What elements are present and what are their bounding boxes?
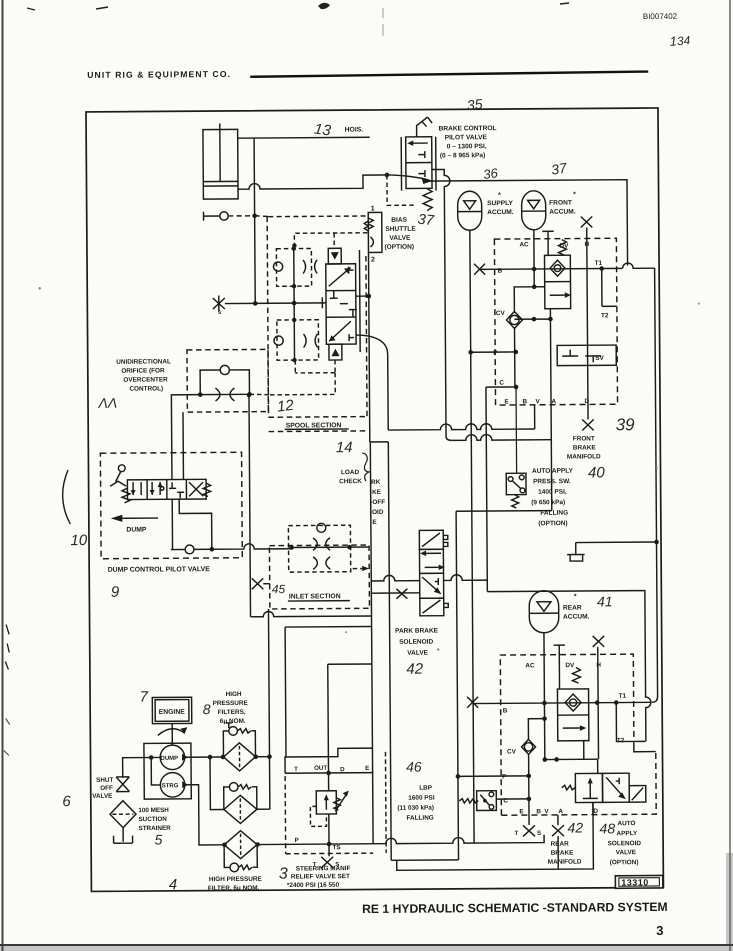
svg-text:4: 4: [169, 876, 177, 893]
svg-text:T1: T1: [595, 260, 603, 267]
suction line: [123, 757, 161, 777]
svg-text:BRAKE: BRAKE: [551, 850, 575, 857]
front accumulator: [522, 191, 546, 230]
svg-text:9: 9: [111, 584, 120, 601]
svg-text:CV: CV: [496, 310, 506, 317]
svg-text:T2: T2: [617, 737, 625, 744]
node dot P steering: [327, 842, 332, 847]
svg-text:SUPPLY: SUPPLY: [487, 200, 513, 207]
load check unit: [288, 523, 350, 572]
DUMP pump: [160, 745, 188, 770]
front brake manifold dashed box: [494, 238, 617, 405]
engine shaft: [171, 724, 173, 746]
branch to middle filter: [210, 757, 224, 810]
wire through load check: [292, 546, 369, 549]
wire orifice main line: [200, 393, 249, 395]
dump control pilot valve dashed box: [100, 452, 242, 558]
U link A to D: [558, 802, 594, 869]
svg-text:2: 2: [371, 256, 375, 263]
load check symbol: [362, 453, 369, 481]
svg-text:SHUTTLE: SHUTTLE: [385, 226, 416, 233]
node dot T1: [599, 266, 604, 271]
supply accumulator: [458, 191, 482, 230]
dump control valve body: [127, 479, 206, 499]
DUMP arrow: [121, 517, 158, 519]
svg-text:D: D: [585, 398, 590, 405]
svg-text:CHECK: CHECK: [339, 478, 362, 485]
manual lever on pilot valve: [417, 117, 433, 137]
node dot pilot rail: [292, 243, 296, 247]
brake control pilot valve label: [439, 125, 497, 159]
svg-text:T1: T1: [619, 693, 627, 700]
13310 tag box outer: [615, 875, 663, 888]
svg-text:C: C: [499, 380, 504, 387]
svg-text:8: 8: [203, 701, 211, 717]
rear DV check block: [557, 689, 588, 741]
auto apply pressure switch: [506, 473, 526, 508]
strainer label: [138, 807, 171, 832]
strainer tank: [113, 828, 132, 844]
bias shuttle valve label: [384, 217, 416, 251]
svg-text:3: 3: [656, 923, 663, 938]
svg-text:(OPTION): (OPTION): [610, 859, 639, 866]
svg-text:IOID: IOID: [370, 509, 384, 516]
pump dump output line: [185, 756, 224, 758]
handwritten margin curve: [62, 470, 70, 524]
hoist cylinder C1: [203, 123, 238, 199]
svg-text:INLET SECTION: INLET SECTION: [289, 593, 341, 600]
svg-text:134: 134: [669, 32, 691, 49]
spool top solenoid cap: [328, 248, 341, 264]
svg-text:OFF: OFF: [100, 785, 113, 792]
svg-text:DUMP: DUMP: [160, 756, 178, 762]
supply accum label: [487, 192, 514, 216]
svg-text:BRAKE CONTROL: BRAKE CONTROL: [439, 125, 497, 132]
auto apply valve spring: [562, 785, 576, 790]
svg-text:SHUT: SHUT: [96, 777, 113, 784]
wire down from jog: [456, 511, 458, 860]
dashed stub inlet to trunk: [353, 567, 367, 569]
wire P line into manifold: [471, 351, 516, 353]
T1 to T2 vertical: [601, 269, 603, 307]
svg-text:BRAKE: BRAKE: [573, 444, 597, 451]
tank branch line: [576, 541, 657, 544]
svg-text:UNIDIRECTIONAL: UNIDIRECTIONAL: [116, 358, 171, 365]
svg-text:S: S: [537, 830, 541, 837]
steering manifold label: [287, 865, 351, 889]
rear DV solenoid: [554, 645, 581, 689]
svg-text:VALVE: VALVE: [616, 849, 637, 856]
dump valve output drops: [171, 499, 173, 549]
H-D line vertical front: [587, 227, 588, 419]
branch y616 to trunk: [250, 611, 371, 617]
svg-text:DUMP: DUMP: [126, 527, 147, 534]
svg-text:-OFF: -OFF: [370, 499, 385, 506]
svg-text:D: D: [340, 766, 345, 773]
relief to P line: [328, 814, 330, 844]
top margin speck 2: [318, 3, 330, 9]
rear port labels: [501, 662, 627, 816]
svg-text:OVERCENTER: OVERCENTER: [123, 376, 168, 383]
auto apply press sw label: [531, 468, 574, 528]
wire filter to return trunk: [256, 756, 270, 758]
rear D line down: [592, 802, 594, 814]
wire dashed spool bottom to drain: [295, 360, 335, 373]
unidirectional orifice label: [116, 358, 171, 392]
svg-text:AUTO APPLY: AUTO APPLY: [532, 468, 574, 475]
fold mark dashes near top center: [382, 8, 384, 36]
node dot C line: [514, 385, 519, 390]
node dot P junction: [456, 774, 461, 779]
node dot accum branch: [532, 285, 537, 290]
rear accum label: [563, 593, 590, 620]
svg-text:CV: CV: [507, 748, 517, 755]
park brake solenoid valve: [419, 530, 448, 616]
rear accum line down: [543, 632, 546, 759]
wire spool right lower curve to trunk: [356, 335, 388, 430]
svg-text:42: 42: [406, 661, 423, 678]
wire spool right to bias line: [356, 295, 369, 297]
svg-text:39: 39: [616, 415, 636, 434]
node dots rear B line: [595, 700, 600, 705]
spool section label: [286, 422, 342, 429]
svg-text:RELIEF VALVE SET: RELIEF VALVE SET: [291, 873, 350, 880]
branch y626.5 steering T: [285, 626, 372, 757]
node dots lower unit: [292, 318, 296, 322]
V line stub: [557, 815, 559, 825]
park brake valve label: [395, 627, 439, 656]
svg-text:5: 5: [155, 831, 163, 847]
right gray edge strip (bottom corner): [726, 853, 733, 951]
svg-text:B: B: [536, 808, 541, 815]
svg-text:VALVE: VALVE: [407, 650, 428, 657]
svg-text:0 – 1300 PSI,: 0 – 1300 PSI,: [447, 143, 487, 150]
svg-text:DUMP CONTROL PILOT VALVE: DUMP CONTROL PILOT VALVE: [108, 566, 211, 574]
node dot output: [210, 547, 215, 552]
node dot accum at B line: [532, 267, 537, 272]
DV solenoid symbol front: [542, 231, 566, 255]
front accum label: [549, 192, 576, 216]
shut off valve label: [92, 777, 113, 800]
unidirectional orifice unit: [187, 349, 268, 412]
node dots work line: [253, 301, 258, 306]
rear CV line: [521, 719, 545, 799]
svg-text:*2400 PSI (16 550: *2400 PSI (16 550: [287, 882, 340, 889]
svg-text:B: B: [523, 398, 528, 405]
svg-text:42: 42: [567, 819, 583, 835]
svg-text:APPLY: APPLY: [617, 830, 639, 837]
node dots filter right: [253, 754, 258, 759]
svg-text:LOAD: LOAD: [341, 469, 360, 476]
top margin speck 1: [96, 7, 108, 9]
svg-text:SV: SV: [595, 355, 604, 362]
svg-text:*: *: [498, 192, 501, 199]
svg-text:MANIFOLD: MANIFOLD: [548, 859, 582, 866]
svg-text:SUCTION: SUCTION: [138, 816, 167, 823]
auto apply solenoid valve label: [607, 820, 641, 866]
node dots orifice line: [198, 392, 203, 397]
wire LBP to C: [496, 798, 529, 800]
right page edge line: [729, 0, 731, 951]
node dots dump output: [208, 755, 213, 760]
lower check-orifice unit: [274, 320, 319, 361]
top margin speck 3: [560, 3, 569, 4]
svg-text:AUTO: AUTO: [617, 820, 635, 827]
svg-text:VALVE: VALVE: [92, 793, 112, 800]
DV check valve block front: [545, 255, 571, 309]
wire pilot line to right with hump: [423, 180, 628, 267]
wire dashed down to spool cap: [333, 233, 335, 248]
node dot bias line: [366, 294, 371, 299]
coupling arc: [158, 729, 185, 736]
left page edge line: [2, 0, 4, 951]
svg-text:ACCUM.: ACCUM.: [487, 209, 514, 216]
brake control pilot valve V35 body: [401, 137, 436, 191]
wire dashed to valve bank: [255, 215, 269, 218]
spool tank drop line: [249, 395, 251, 617]
svg-text:TS: TS: [333, 844, 341, 851]
B port exit to line1: [534, 405, 536, 429]
wire C to left exit: [486, 386, 516, 388]
wire H to valve top: [597, 759, 599, 773]
dashed vertical beside trunk: [384, 752, 387, 853]
park valve feed line: [371, 575, 419, 581]
check valve on dump output: [185, 545, 194, 554]
middle filter output: [257, 808, 270, 810]
rear P line: [458, 775, 529, 777]
svg-text:14: 14: [336, 439, 353, 456]
rear B line: [473, 702, 652, 703]
svg-text:(11 030 kPa): (11 030 kPa): [397, 805, 434, 812]
svg-text:LBP: LBP: [419, 785, 433, 792]
wire hoist top line: [238, 136, 370, 139]
svg-text:A: A: [552, 398, 557, 405]
SV solenoid block front: [557, 345, 616, 366]
rear auto apply solenoid valve: [575, 773, 646, 802]
node dots upper unit: [292, 246, 296, 250]
svg-text:7: 7: [140, 689, 149, 706]
header underline: [250, 72, 648, 77]
rear H line: [597, 647, 600, 759]
steering port labels: [294, 764, 370, 851]
LBP label: [397, 785, 435, 822]
wire dashed top of valve bank box: [268, 215, 368, 218]
svg-text:PRESSURE: PRESSURE: [213, 700, 249, 707]
rear manifold dashed box: [500, 654, 656, 815]
bottom link line y857: [391, 859, 558, 870]
X front brake below D: [582, 419, 594, 430]
svg-text:P: P: [295, 837, 299, 844]
suction branch to STRG: [151, 757, 160, 785]
X above H front: [581, 216, 593, 227]
svg-text:OUT: OUT: [314, 765, 327, 772]
steering feed line right: [258, 843, 329, 845]
svg-text:1: 1: [371, 205, 375, 212]
svg-text:6: 6: [62, 793, 71, 810]
svg-text:MANIFOLD: MANIFOLD: [567, 453, 601, 460]
rear brake manifold label: [548, 841, 582, 866]
scan speckles: [39, 287, 41, 289]
svg-text:FALLING: FALLING: [406, 815, 433, 822]
svg-text:ENGINE: ENGINE: [159, 709, 186, 716]
trunk line right x388.5: [388, 442, 391, 860]
svg-text:VALVE: VALVE: [389, 235, 411, 242]
wire hoist rod line with hump: [238, 175, 387, 189]
X below rear V: [552, 825, 564, 836]
hump on B line at pilot vertical: [623, 263, 655, 269]
svg-text:PARK BRAKE: PARK BRAKE: [395, 627, 439, 634]
branch y664 steering OUT: [328, 664, 373, 773]
svg-text:DV: DV: [565, 662, 575, 669]
svg-text:H: H: [596, 662, 601, 669]
rear accumulator: [529, 591, 559, 633]
dump valve lever: [110, 465, 126, 487]
svg-text:36: 36: [482, 165, 499, 182]
svg-text:BI007402: BI007402: [643, 12, 678, 21]
top margin speck 4: [27, 8, 35, 10]
hoist spool valve body: [326, 250, 361, 352]
wire left drop to dump valve: [171, 395, 200, 480]
wire vertical from hoist top: [254, 138, 255, 303]
wire hoist work line: [225, 302, 326, 305]
suction strainer: [110, 801, 136, 828]
LBP pressure switch: [459, 791, 496, 811]
middle HP filter: [224, 782, 257, 823]
svg-text:12: 12: [276, 397, 295, 416]
svg-text:FRONT: FRONT: [549, 200, 572, 207]
T2 dashed stub: [602, 305, 617, 307]
return trunk x267.5: [268, 609, 269, 809]
svg-text:100 MESH: 100 MESH: [138, 807, 169, 814]
test point X with S: [213, 295, 225, 316]
svg-text:41: 41: [597, 593, 613, 609]
line2 park pilot line: [452, 434, 552, 440]
T S X rear: [514, 825, 541, 837]
svg-text:RE 1 HYDRAULIC SCHEMATIC -STAN: RE 1 HYDRAULIC SCHEMATIC -STANDARD SYSTE…: [362, 900, 668, 916]
svg-text:T2: T2: [601, 312, 609, 319]
node junction dot pilot: [385, 173, 390, 178]
front manifold port labels: [492, 241, 609, 406]
lower filter label: [208, 876, 263, 892]
node dot P-line at supply: [468, 350, 473, 355]
node dot on vertical: [252, 213, 257, 218]
node dot OUT: [326, 771, 331, 776]
svg-text:ACCUM.: ACCUM.: [563, 613, 590, 620]
wire jog line2 to park output: [456, 510, 552, 513]
svg-text:40: 40: [588, 464, 605, 481]
steering P line continues right: [329, 835, 544, 844]
steering relief valve: [310, 773, 349, 827]
steering manifold box: [285, 748, 373, 854]
svg-text:1400 PSI,: 1400 PSI,: [538, 489, 567, 496]
svg-text:35: 35: [466, 96, 483, 114]
wire dashed to spool drain: [249, 393, 268, 396]
node dots load check: [289, 545, 294, 550]
X above rear H: [593, 636, 605, 647]
X on park stub: [396, 589, 407, 599]
C exit down: [486, 387, 487, 591]
svg-text:ORIFICE (FOR: ORIFICE (FOR: [121, 367, 165, 374]
svg-text:(0 – 8 965 kPa): (0 – 8 965 kPa): [440, 152, 486, 159]
wire second drop to dump valve: [182, 412, 184, 479]
svg-text:*: *: [574, 594, 577, 601]
rear E line to TS: [528, 799, 530, 825]
wire dashed drain to orifice line: [268, 373, 335, 395]
bottom gray edge strip: [0, 945, 733, 951]
svg-text:AC: AC: [519, 241, 529, 248]
svg-text:37: 37: [417, 212, 436, 230]
dump valve springs: [122, 488, 130, 503]
svg-text:48: 48: [599, 820, 615, 836]
top HP filter: [223, 723, 255, 771]
svg-text:FRONT: FRONT: [573, 435, 595, 442]
svg-text:46: 46: [406, 759, 422, 775]
rear supply down: [487, 591, 651, 743]
upper check-orifice unit: [273, 248, 317, 286]
svg-text:BIAS: BIAS: [391, 217, 407, 224]
trunk line left x370: [370, 442, 373, 844]
svg-text:ΛΛ: ΛΛ: [97, 395, 117, 411]
svg-text:HIGH: HIGH: [226, 691, 242, 698]
svg-text:E: E: [365, 765, 369, 772]
svg-text:HIGH PRESSURE: HIGH PRESSURE: [209, 876, 263, 883]
svg-text:SOLENOID: SOLENOID: [608, 840, 642, 847]
svg-text:*: *: [573, 192, 576, 199]
svg-text:T: T: [515, 830, 519, 837]
wire vertical linking units: [293, 286, 295, 320]
spring pilot valve: [423, 189, 432, 211]
E port line to switch: [515, 387, 518, 473]
X closed port left of B: [474, 264, 485, 275]
svg-text:ACCUM.: ACCUM.: [549, 209, 576, 216]
svg-text:10: 10: [70, 532, 87, 549]
CV line with check front: [506, 287, 535, 387]
pump box: [144, 743, 191, 799]
wire dump output line: [171, 544, 292, 550]
wire accum branch to DV valve: [534, 286, 544, 288]
svg-text:FILTERS,: FILTERS,: [218, 709, 246, 716]
spool bottom solenoid cap: [329, 344, 342, 360]
front B line: [480, 267, 623, 270]
X rear B left: [467, 697, 478, 708]
spool section dashed outline: [267, 216, 367, 432]
wire dashed pilot rail y233: [294, 233, 367, 246]
node dot P at CV line: [513, 350, 518, 355]
park valve output right: [444, 575, 488, 581]
bottom page edge line: [0, 944, 733, 946]
node dots rear accum line: [542, 701, 547, 706]
svg-text:3: 3: [279, 866, 288, 883]
shut off valve: [116, 777, 129, 792]
partial hidden label park brake shutoff: [370, 479, 385, 526]
svg-text:KE: KE: [372, 489, 382, 496]
svg-text:T: T: [294, 766, 298, 773]
bias shuttle valve V1: [364, 212, 382, 252]
svg-text:A: A: [558, 808, 563, 815]
STRG pump: [160, 773, 188, 798]
node dots rear CV: [526, 774, 531, 779]
line1 brake apply to B port: [388, 423, 535, 430]
svg-text:(OPTION): (OPTION): [538, 520, 567, 527]
svg-text:REAR: REAR: [563, 604, 582, 611]
wire dashed pilot to spring: [387, 175, 414, 206]
wire step to lower trunk: [370, 441, 388, 443]
park valve X stub line: [371, 592, 419, 594]
svg-text:PILOT VALVE: PILOT VALVE: [445, 134, 488, 141]
svg-text:13310: 13310: [621, 877, 649, 887]
valve port tick: [321, 297, 323, 308]
node dot suction: [149, 755, 154, 760]
